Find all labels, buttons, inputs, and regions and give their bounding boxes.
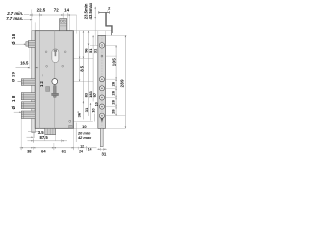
svg-text:12: 12 (80, 144, 84, 148)
svg-text:289: 289 (120, 79, 125, 88)
svg-text:24: 24 (79, 150, 83, 154)
svg-text:31: 31 (102, 152, 107, 157)
svg-text:16.5: 16.5 (20, 61, 29, 66)
svg-text:7.7 max.: 7.7 max. (6, 16, 23, 21)
svg-text:43.5max: 43.5max (88, 2, 93, 19)
svg-text:85: 85 (79, 65, 84, 71)
svg-text:97: 97 (92, 92, 97, 97)
svg-text:22.5: 22.5 (37, 8, 46, 13)
svg-text:64: 64 (41, 148, 46, 153)
svg-text:36°: 36° (77, 111, 82, 117)
svg-text:38: 38 (27, 148, 32, 153)
svg-text:Ø 19: Ø 19 (11, 71, 16, 82)
svg-text:12: 12 (39, 80, 44, 87)
svg-text:28: 28 (110, 81, 115, 86)
svg-text:28: 28 (110, 90, 115, 95)
svg-text:10: 10 (82, 124, 87, 129)
svg-text:72: 72 (54, 8, 59, 13)
svg-text:28: 28 (110, 109, 115, 114)
svg-text:31: 31 (92, 48, 97, 53)
svg-text:31: 31 (84, 107, 89, 112)
svg-text:14: 14 (88, 148, 92, 152)
svg-text:105: 105 (112, 58, 117, 67)
svg-text:10: 10 (94, 102, 98, 106)
svg-text:14: 14 (64, 8, 69, 13)
svg-text:28: 28 (110, 99, 115, 104)
svg-text:Ø 18: Ø 18 (11, 33, 16, 44)
svg-text:10: 10 (91, 108, 96, 113)
svg-text:87.5: 87.5 (40, 135, 49, 140)
svg-text:61: 61 (62, 148, 67, 153)
svg-text:42 max: 42 max (77, 135, 92, 140)
svg-text:Ø 18: Ø 18 (11, 94, 16, 109)
